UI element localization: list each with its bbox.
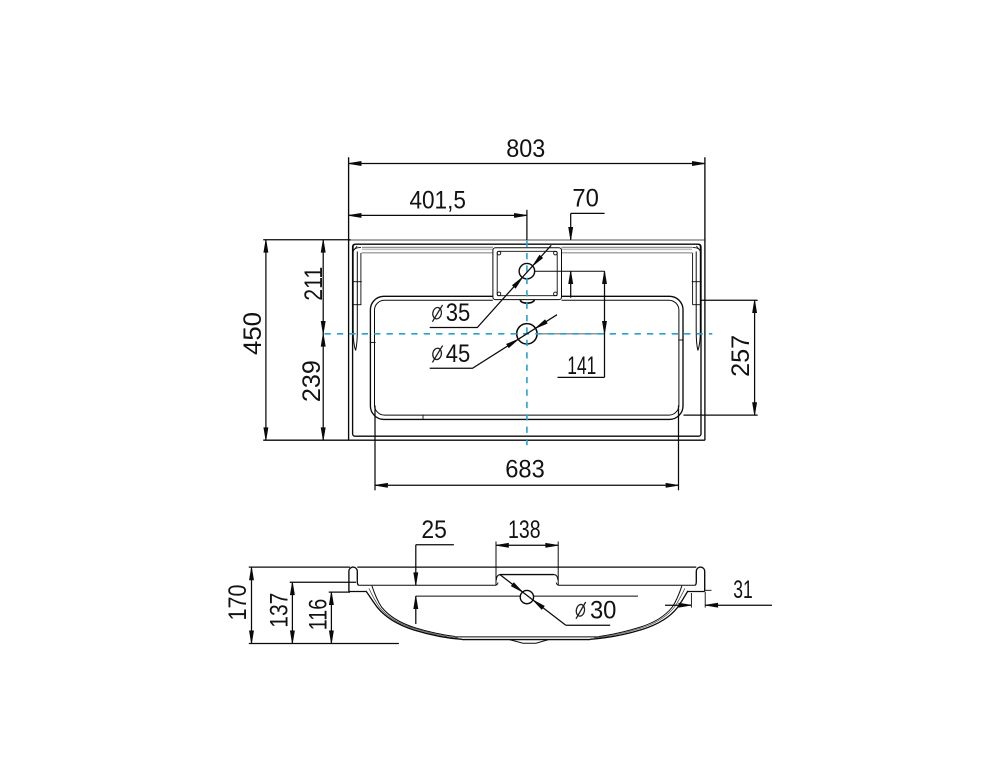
bowl outer silhouette left	[366, 591, 462, 639]
rim front gray highlight line 1 right segment	[562, 246, 693, 248]
recess floor left fillet	[496, 575, 500, 581]
bowl inner bottom flat	[455, 636, 599, 638]
outer outline bottom edge + 450 extension	[263, 439, 705, 441]
left flange bottom edge	[349, 591, 366, 593]
basin outer rounded rectangle	[370, 296, 683, 419]
arrow 25 up	[414, 596, 418, 609]
d30 leader underline	[566, 624, 610, 626]
faucet hole circle	[519, 263, 535, 279]
extension 450 top	[263, 239, 350, 241]
arrow 137 bottom	[290, 631, 294, 644]
vertical centerline	[526, 241, 528, 447]
diameter symbol of 45: ellipse	[432, 348, 442, 361]
dim line 683	[375, 484, 679, 486]
left ledge top corner arc	[353, 244, 358, 248]
dim 31 extension tick	[690, 593, 692, 608]
arrow 239 bottom	[321, 428, 325, 441]
arrow 170 top	[249, 567, 253, 580]
outer outline left edge (also 803/450 extension)	[348, 157, 350, 440]
dim line 257	[754, 300, 756, 415]
arrow 401,5 right	[514, 213, 527, 217]
extension line from faucet hole to 141 dim	[535, 270, 605, 272]
svg-text:116: 116	[306, 599, 333, 631]
arrow 683 right	[666, 483, 679, 487]
recess fillet circle top-left	[497, 251, 501, 255]
recess fillet circle bottom-left	[497, 292, 501, 296]
svg-text:25: 25	[421, 517, 447, 544]
right flange bottom edge	[688, 591, 705, 593]
interior bottom edge right of hole	[534, 595, 638, 597]
recess floor right fillet	[554, 575, 558, 581]
right ledge top corner arc	[696, 244, 701, 248]
bowl tangent hatch right	[594, 588, 685, 638]
arrow 70 down at top edge	[569, 227, 573, 240]
dim line 116	[330, 592, 332, 643]
diameter symbol of 30: slash	[576, 602, 586, 619]
back deck edge right segment	[558, 584, 695, 586]
leader line diameter 30	[500, 574, 566, 625]
svg-text:70: 70	[572, 186, 599, 213]
svg-text:683: 683	[505, 457, 545, 484]
drain boss trapezoid	[510, 640, 549, 644]
dim 25 lower shaft	[415, 596, 417, 624]
back deck edge left segment	[358, 584, 496, 586]
dim line 170	[251, 567, 253, 643]
arrow 170 bottom	[249, 631, 253, 644]
diameter symbol of 35: slash	[432, 305, 442, 322]
dim line 450	[265, 240, 267, 440]
drain hole circle	[517, 324, 537, 344]
left ledge tick 1	[352, 281, 362, 283]
svg-text:35: 35	[446, 300, 471, 327]
rim front gray highlight line 2 right segment	[562, 248, 693, 250]
recess fillet circle top-right	[554, 251, 558, 255]
svg-text:170: 170	[225, 585, 252, 621]
right ledge corner hatch	[696, 246, 700, 251]
right ledge tick 1	[692, 281, 702, 283]
recess fillet circle bottom-right	[554, 292, 558, 296]
inner rim rectangle	[353, 244, 701, 436]
extension 116 top	[329, 591, 350, 593]
horizontal centerline	[325, 333, 713, 335]
flange lip line right of capsule	[705, 589, 711, 591]
svg-text:450: 450	[240, 312, 267, 355]
arrow 450 top	[264, 240, 268, 253]
extension 170 top	[249, 566, 350, 568]
dim 31 left shaft	[665, 604, 691, 606]
arrow d45 lower	[507, 339, 519, 347]
basin left edge tick	[370, 341, 376, 343]
right ledge outer line	[698, 244, 700, 350]
bowl outer silhouette right	[590, 591, 688, 639]
rim front gray highlight line 2	[362, 248, 493, 250]
gray extension line from drain hole to 141 dim	[537, 333, 604, 335]
recess floor	[500, 574, 554, 576]
extension common bottom	[249, 643, 399, 645]
arrow 683 left	[375, 483, 388, 487]
right ledge inner line	[696, 252, 698, 351]
svg-text:803: 803	[506, 136, 545, 163]
recess step left vertical (138 extension)	[495, 542, 497, 586]
arrow 31 left (points right)	[679, 603, 692, 607]
svg-text:138: 138	[508, 517, 541, 544]
extension 683 right	[678, 406, 680, 491]
recess step right foot fillet	[556, 583, 558, 586]
arrow 141 up	[602, 271, 606, 284]
svg-text:137: 137	[267, 593, 294, 628]
arrow 70 up at faucet line	[569, 271, 573, 284]
arrow 211 bottom	[321, 321, 325, 334]
dim 70 upper shaft	[570, 213, 572, 240]
dim 31 right shaft	[705, 604, 772, 606]
arrow 401,5 left	[349, 213, 362, 217]
arrow d30 lower	[533, 600, 544, 609]
dim line 137	[291, 582, 293, 643]
dim 70 leader	[571, 212, 605, 214]
arrow 138 right	[546, 543, 559, 547]
bowl tangent hatch left	[369, 588, 458, 638]
outer outline right edge (also 803 extension)	[704, 157, 706, 440]
arrow 25 down	[414, 573, 418, 586]
left ledge outer line	[353, 244, 355, 350]
interior bottom edge left of hole	[416, 595, 521, 597]
arrow 137 top	[290, 582, 294, 595]
left flange capsule	[349, 567, 359, 591]
basin inner rounded rectangle	[375, 300, 679, 415]
right ledge tick 2	[692, 304, 700, 306]
rim inner edge right segment	[562, 252, 693, 254]
left ledge third line	[360, 253, 362, 305]
dim 141 vertical line	[604, 271, 606, 377]
left ledge inner line	[356, 252, 358, 351]
svg-text:401,5: 401,5	[409, 187, 466, 214]
diameter symbol of 30: ellipse	[575, 604, 585, 617]
dim 141 text underline	[558, 376, 605, 378]
extension 683 left	[374, 406, 376, 491]
arrow d45 upper	[536, 320, 548, 328]
right ledge third line	[692, 253, 694, 305]
arrow d35 upper	[533, 255, 543, 266]
dim 70 lower shaft	[570, 271, 572, 298]
diameter symbol of 35: ellipse	[432, 307, 442, 320]
arrow 803 left	[349, 161, 362, 165]
right flange capsule	[695, 567, 705, 591]
arrow 450 bottom	[264, 428, 268, 441]
diameter symbol of 45: slash	[432, 346, 442, 363]
rim inner edge left segment	[362, 252, 493, 254]
arrow 116 top	[329, 592, 333, 605]
svg-text:257: 257	[728, 335, 755, 377]
dim line 401,5	[349, 214, 527, 216]
basin bottom edge tick	[422, 415, 424, 420]
dim line 803	[349, 163, 705, 165]
faucet recess inner rectangle	[497, 251, 557, 295]
arrow d35 lower	[513, 277, 523, 288]
deck top line	[357, 566, 696, 568]
svg-text:211: 211	[301, 267, 328, 301]
arrow 239 top	[321, 334, 325, 347]
left ledge tick 2	[353, 304, 362, 306]
arrow 211 top	[321, 240, 325, 253]
recess step right vertical (138 extension)	[557, 542, 559, 586]
arrow d30 upper	[511, 583, 522, 592]
basin right edge tick	[678, 339, 683, 341]
left ledge second corner arc	[353, 248, 361, 253]
left ledge corner hatch	[353, 246, 357, 251]
arrow 257 bottom	[753, 403, 757, 416]
arrow 257 top	[753, 300, 757, 313]
outer ceramic outline top edge	[349, 239, 705, 241]
svg-text:141: 141	[567, 353, 596, 380]
extension 401,5 at centerline	[526, 210, 528, 240]
leader line diameter 35	[430, 245, 552, 327]
svg-text:239: 239	[299, 360, 326, 402]
arrow 31 right (points left)	[705, 603, 718, 607]
bowl inner edge right	[599, 586, 682, 637]
dim 31 extension right	[704, 592, 706, 608]
arrow 116 bottom	[329, 631, 333, 644]
extension 257 bottom	[684, 414, 758, 416]
faucet recess outer rectangle	[493, 248, 562, 300]
svg-text:31: 31	[733, 577, 753, 604]
rim front gray highlight line 1	[362, 246, 493, 248]
overflow hole circle d30	[520, 590, 533, 603]
right ledge second corner arc	[693, 248, 701, 253]
leader line diameter 45	[430, 315, 557, 369]
overflow smile arc below recess	[520, 300, 534, 303]
recess step left foot fillet	[496, 583, 498, 586]
arrow 141 down	[602, 321, 606, 334]
arrow 803 right	[692, 161, 705, 165]
svg-text:45: 45	[446, 341, 471, 368]
arrow 138 left	[496, 543, 509, 547]
dim line 211/239	[322, 240, 324, 440]
bowl inner edge left	[372, 586, 455, 637]
dim line 138	[496, 544, 558, 546]
extension 137 top	[290, 581, 356, 583]
bowl outer bottom flat	[462, 639, 590, 641]
dim 25 upper shaft	[415, 545, 417, 586]
extension 257 top	[700, 299, 758, 301]
svg-text:30: 30	[590, 597, 617, 624]
dim 25 leader	[416, 544, 454, 546]
